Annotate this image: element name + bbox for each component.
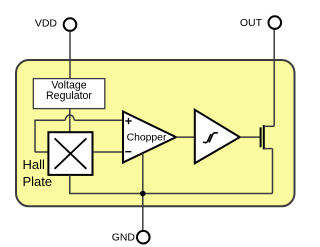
svg-text:Regulator: Regulator bbox=[46, 90, 92, 102]
junction dot ground rail bbox=[140, 191, 146, 197]
svg-text:Chopper: Chopper bbox=[127, 133, 167, 144]
op-amp chopper bbox=[123, 112, 176, 163]
wire chopper ground reference bbox=[142, 153, 144, 231]
wire hall plate right terminal to chopper minus input bbox=[93, 151, 124, 153]
svg-text:VDD: VDD bbox=[35, 18, 58, 30]
svg-text:OUT: OUT bbox=[240, 17, 263, 29]
pin OUT terminal circle bbox=[269, 16, 282, 29]
wire hop arc over vertical line bbox=[65, 115, 74, 120]
wire regulator to hall plate top bbox=[69, 109, 71, 133]
wire source to ground rail bbox=[272, 149, 274, 194]
svg-text:GND: GND bbox=[112, 233, 135, 244]
voltage regulator block bbox=[33, 79, 105, 109]
pin VDD terminal circle bbox=[64, 18, 77, 31]
wire VDD to regulator bbox=[69, 31, 71, 78]
wire left loop into hall plate left terminal bbox=[35, 151, 48, 153]
wire chopper output to schmitt trigger bbox=[176, 136, 195, 138]
svg-text:Hall: Hall bbox=[23, 157, 46, 172]
wire hall plate bottom to ground rail bbox=[70, 175, 273, 194]
transistor Q1 output MOSFET bbox=[261, 125, 275, 149]
wire schmitt output to transistor gate bbox=[240, 136, 260, 138]
pin GND terminal circle bbox=[137, 231, 150, 244]
IC package outline bbox=[16, 60, 295, 206]
wire drain to OUT pin bbox=[273, 29, 275, 127]
svg-text:Plate: Plate bbox=[23, 174, 53, 189]
hall plate element bbox=[48, 132, 92, 175]
wire left feedback to chopper plus input (with hop) bbox=[35, 120, 65, 152]
schmitt trigger U2 bbox=[195, 110, 240, 164]
